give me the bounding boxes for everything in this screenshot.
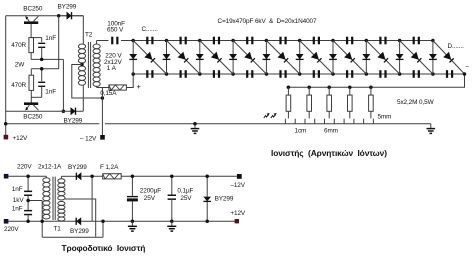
node C4 bottom <box>26 220 30 224</box>
transformer T2 primary lower <box>78 66 85 85</box>
label 25V (C5) <box>144 195 156 202</box>
svg-text:1nF: 1nF <box>45 35 56 42</box>
capacitors C bottom row (10x470pF) <box>146 70 453 78</box>
label 2200uF <box>140 187 161 194</box>
transformer T1 core <box>53 177 55 220</box>
node top-coupling <box>57 14 61 18</box>
wire T1 neutral down <box>40 201 103 238</box>
label +12V <box>13 135 29 142</box>
wire mid to mains-neutral <box>28 200 42 202</box>
wire HV output <box>287 72 467 87</box>
label T1 <box>54 225 62 232</box>
svg-text:1cm: 1cm <box>295 128 307 135</box>
node C3 top <box>26 175 30 179</box>
terminal +12V (maroon square) <box>4 135 9 140</box>
svg-text:650 V: 650 V <box>107 27 124 34</box>
node tap join <box>101 96 105 100</box>
resistor R2 470R <box>29 75 34 90</box>
terminal -12V supply (black square) <box>237 174 242 179</box>
wire bottom rail <box>6 110 84 112</box>
svg-text:470R: 470R <box>11 42 26 49</box>
svg-text:1 A: 1 A <box>107 65 117 72</box>
label 1 A (T2) <box>107 65 117 72</box>
diode D5 BY299 <box>203 176 211 221</box>
nodes multiplier top <box>131 39 434 43</box>
svg-text:BY299: BY299 <box>215 196 234 203</box>
capacitor C6 0,1uF <box>168 176 176 221</box>
label 25V (C6) <box>180 195 192 202</box>
svg-text:470R: 470R <box>11 82 26 89</box>
label - (output) <box>466 63 470 70</box>
diode D4 BY299 <box>76 217 81 225</box>
wire top rail <box>6 15 84 17</box>
svg-text:–: – <box>466 63 470 70</box>
wire T1 sec top lead <box>61 176 76 179</box>
wire 220V bottom <box>8 220 92 222</box>
wire common rail <box>92 220 237 222</box>
label Ionistis <box>271 148 387 158</box>
label 0,15A <box>100 90 117 97</box>
label T2 <box>85 32 93 39</box>
wire T2 tap to -12V <box>72 65 103 99</box>
grid electrode ticks <box>285 119 373 124</box>
label 2x12V (T2) <box>104 59 122 66</box>
label 220V (top) <box>17 164 32 171</box>
wire C2 top lead <box>40 67 44 81</box>
spark symbols <box>264 113 277 118</box>
node D5 top <box>205 175 209 179</box>
capacitor C3 1nF <box>24 191 32 196</box>
wire R2 top lead <box>30 69 32 75</box>
fuse F1 1,2A <box>103 174 122 179</box>
svg-text:BC250: BC250 <box>23 114 43 121</box>
svg-text:25V: 25V <box>180 195 192 202</box>
capacitor 100nF <box>111 37 118 45</box>
label BC250 (Q2) <box>23 114 43 121</box>
wire T2 primary bottom lead <box>82 85 84 111</box>
transformer T2 secondary <box>93 44 100 86</box>
svg-text:BY299: BY299 <box>68 164 87 171</box>
capacitor C4 1nF <box>24 210 32 215</box>
label 470R (R1) <box>11 42 26 49</box>
label 2x12-1A <box>38 164 62 171</box>
svg-text:1nF: 1nF <box>12 205 23 212</box>
label 650 V <box>107 27 124 34</box>
svg-text:220V: 220V <box>17 164 32 171</box>
label 1cm <box>295 128 307 135</box>
svg-text:0,15A: 0,15A <box>100 90 117 97</box>
label 100nF <box>107 20 125 27</box>
wire cross-couple B <box>31 16 58 69</box>
wire multiplier bottom rail <box>133 73 464 75</box>
svg-text:+12V: +12V <box>230 210 246 217</box>
wire cathode join <box>91 176 93 221</box>
capacitor C2 1nF <box>38 82 45 87</box>
resistors 5x2,2M with needles <box>286 86 373 119</box>
label 0,1uF <box>177 187 193 194</box>
wire 100nF to multiplier <box>121 40 133 42</box>
terminal 220V top (blue) <box>4 174 9 179</box>
label 1nF (C4) <box>12 205 23 212</box>
transformer T1 secondary upper <box>58 179 65 200</box>
svg-text:– 12V: – 12V <box>80 135 97 142</box>
svg-text:–12V: –12V <box>230 182 245 189</box>
diode D_BY299_bottom <box>71 107 76 115</box>
label 1nF (C3) <box>12 186 23 193</box>
wire fuse to multiplier + <box>126 74 133 88</box>
svg-text:220V: 220V <box>4 226 19 233</box>
diode D_BY299_top <box>62 12 83 20</box>
transistor Q1 BC250 <box>24 16 38 37</box>
label BY299 (D4) <box>70 228 89 235</box>
label 470R (R2) <box>11 82 26 89</box>
ground (C6) <box>167 221 176 231</box>
terminal +12V supply (maroon square) <box>235 219 239 223</box>
node C5 top <box>131 175 135 179</box>
terminal -12V (black square) <box>100 135 105 140</box>
node A-bottom <box>62 109 66 113</box>
svg-text:+12V: +12V <box>13 135 29 142</box>
wire +12V left rail <box>5 16 7 138</box>
svg-text:BC250: BC250 <box>23 6 43 13</box>
node T2 center tap <box>80 63 84 67</box>
label C=19x470pF 6kV & D=20x1N4007 <box>218 18 318 25</box>
svg-text:2W: 2W <box>15 62 25 69</box>
label BY299 (bottom) <box>64 118 83 125</box>
label 1nF (C2) <box>45 88 56 95</box>
label Trofodotiko <box>62 243 146 253</box>
ground (mid) <box>191 122 200 133</box>
diode D3 BY299 <box>76 172 102 180</box>
label 1kV <box>13 197 25 204</box>
wire T2 sec top lead <box>97 41 109 45</box>
svg-text:+: + <box>137 82 142 91</box>
transformer T2 primary upper <box>78 44 85 63</box>
wire T1 center tap <box>65 199 96 237</box>
svg-text:1kV: 1kV <box>13 197 25 204</box>
label 5x2,2M 0,5W <box>397 99 435 106</box>
node C6 bottom <box>170 220 174 224</box>
wire C3-C4 mid <box>27 195 29 211</box>
svg-text:T1: T1 <box>54 225 62 232</box>
node mid-neutral <box>26 199 30 203</box>
label C...... <box>142 26 159 33</box>
transformer T1 secondary lower <box>58 201 65 221</box>
transformer T1 primary <box>43 178 50 219</box>
svg-text:2200µF: 2200µF <box>140 187 161 194</box>
svg-text:T2: T2 <box>85 32 93 39</box>
svg-text:1nF: 1nF <box>12 186 23 193</box>
svg-text:C=19x470pF 6kV & D=20x1N4007: C=19x470pF 6kV & D=20x1N4007 <box>218 18 318 25</box>
wire T1 prim top lead <box>45 176 47 178</box>
label 5mm <box>378 113 392 120</box>
capacitor C1 1nF <box>38 43 45 48</box>
terminal 220V bottom (blue) <box>4 219 9 224</box>
nodes multiplier bottom <box>131 72 434 76</box>
wire C3 top lead <box>27 176 29 191</box>
node ground-rail left <box>4 122 8 126</box>
diodes D diagonal (10x1N4007) <box>133 41 464 75</box>
label -12V (supply) <box>230 182 245 189</box>
resistor R1 470R <box>29 38 34 53</box>
ground (C5) <box>128 221 137 231</box>
node C6 top <box>170 175 174 179</box>
svg-text:BY299: BY299 <box>70 228 89 235</box>
label BY299 (D3) <box>68 164 87 171</box>
node R1C1 <box>40 58 44 62</box>
svg-text:Τροφοδοτικό Ιονιστή: Τροφοδοτικό Ιονιστή <box>62 243 146 253</box>
wire 220V top <box>8 175 46 177</box>
svg-text:0,1µF: 0,1µF <box>177 187 193 194</box>
wire T2 sec bottom lead <box>97 86 109 87</box>
label + (multiplier in) <box>137 82 142 91</box>
wire C4 bottom lead <box>27 215 29 222</box>
label 220V (bottom) <box>4 226 19 233</box>
label 220 V (T2) <box>105 53 122 60</box>
label -12V (osc) <box>80 135 97 142</box>
svg-text:BY299: BY299 <box>58 4 77 11</box>
node cathode top <box>90 175 94 179</box>
svg-text:25V: 25V <box>144 195 156 202</box>
label F 1,2A <box>100 164 119 171</box>
capacitors C top row (9x470pF) <box>146 37 420 45</box>
fuse F2 0,15A <box>109 85 127 90</box>
wire C2 bottom to base <box>31 86 41 97</box>
wire -12V vertical <box>101 88 103 137</box>
svg-text:C.......: C....... <box>142 26 159 33</box>
transformer T2 core <box>88 42 90 88</box>
node C5 bottom <box>131 220 135 224</box>
label BC250 (Q1) <box>23 6 43 13</box>
svg-text:1nF: 1nF <box>45 88 56 95</box>
svg-text:Ιονιστής (Αρνητικών Ιόντων): Ιονιστής (Αρνητικών Ιόντων) <box>271 148 387 158</box>
svg-text:5x2,2M 0,5W: 5x2,2M 0,5W <box>397 99 435 106</box>
svg-text:5mm: 5mm <box>378 113 392 120</box>
label 6mm <box>324 128 338 135</box>
svg-text:F 1,2A: F 1,2A <box>100 164 119 171</box>
label BY299 (D5) <box>215 196 234 203</box>
capacitor C5 2200uF <box>127 176 138 221</box>
svg-text:D.......: D....... <box>448 43 465 50</box>
svg-text:6mm: 6mm <box>324 128 338 135</box>
label +12V (supply) <box>230 210 246 217</box>
svg-text:2x12-1A: 2x12-1A <box>38 164 62 171</box>
node common join <box>101 220 105 224</box>
wire T2 primary top lead <box>82 16 84 44</box>
wire fuse to -12V <box>121 175 237 177</box>
diodes D vertical (10x1N4007) <box>129 41 437 75</box>
wire R1/C1 bottom junction <box>31 47 63 59</box>
node D5 bottom <box>205 220 209 224</box>
wire Q1 base to C1 <box>31 38 42 42</box>
transistor Q2 BC250 <box>24 90 38 110</box>
label D...... <box>448 43 465 50</box>
label BY299 (top) <box>58 4 77 11</box>
wire cross-couple A down <box>62 59 64 111</box>
ground (right) <box>427 124 436 134</box>
wire multiplier top rail <box>133 40 433 42</box>
wire ground rail long <box>6 123 431 125</box>
label 2W <box>15 62 25 69</box>
label 1nF (C1) <box>45 35 56 42</box>
